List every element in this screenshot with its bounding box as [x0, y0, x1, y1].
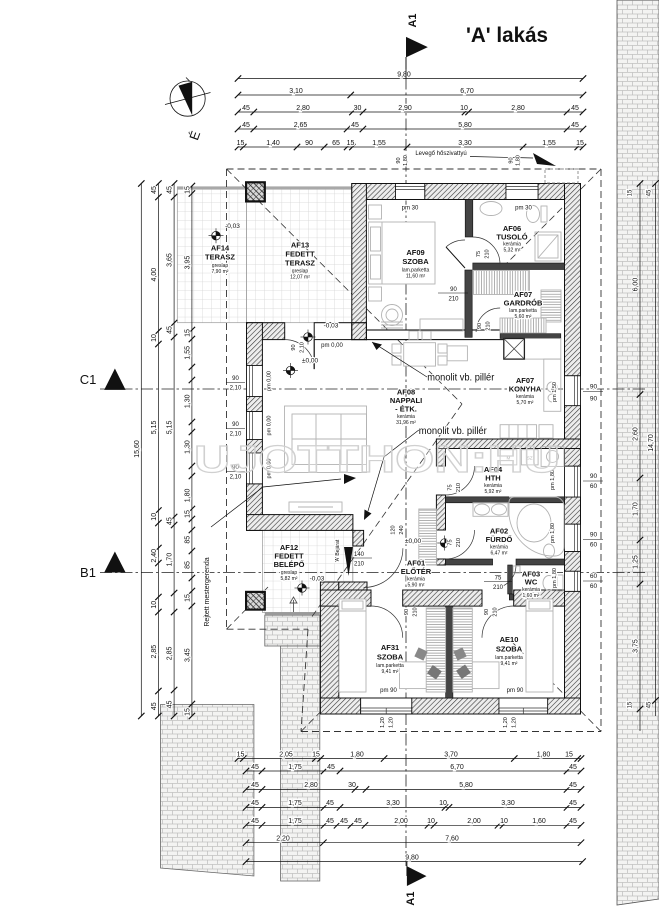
entry door arc [364, 548, 403, 587]
entrance steps paving [265, 615, 320, 646]
svg-text:45: 45 [242, 122, 250, 129]
svg-text:2,80: 2,80 [304, 782, 318, 789]
svg-text:45: 45 [351, 122, 359, 129]
svg-text:A1: A1 [407, 13, 419, 27]
sofa [285, 406, 367, 473]
svg-text:45: 45 [167, 517, 174, 525]
bath sinks [473, 503, 508, 517]
svg-text:45: 45 [340, 818, 348, 825]
island [447, 346, 467, 361]
svg-text:60: 60 [590, 483, 598, 490]
svg-text:UJOTTHON:HU: UJOTTHON:HU [194, 439, 560, 481]
svg-text:210: 210 [413, 607, 419, 616]
svg-text:Rejtett mestergerenda: Rejtett mestergerenda [204, 557, 211, 626]
svg-text:210: 210 [448, 297, 459, 303]
crib [382, 305, 403, 326]
svg-text:lam.parketta: lam.parketta [376, 663, 404, 669]
chimney shaft [504, 339, 525, 360]
entry east wall [353, 530, 364, 546]
svg-text:5,80: 5,80 [458, 122, 472, 129]
bench [420, 319, 463, 331]
svg-text:6,70: 6,70 [460, 88, 474, 95]
bath wc [544, 544, 555, 558]
window west 2 [247, 412, 263, 440]
svg-text:-0,03: -0,03 [310, 576, 325, 583]
svg-text:140: 140 [354, 552, 365, 558]
svg-text:90: 90 [404, 609, 410, 615]
svg-text:15: 15 [312, 751, 320, 758]
svg-text:2,10: 2,10 [230, 432, 242, 438]
svg-text:45: 45 [569, 764, 577, 771]
svg-text:45: 45 [571, 105, 579, 112]
bedroom west wall [320, 582, 338, 714]
wardrobes bedrooms [426, 608, 445, 692]
living south wall [247, 515, 353, 531]
svg-text:45: 45 [151, 702, 158, 710]
section line B1 [100, 572, 648, 574]
svg-text:60: 60 [590, 583, 598, 590]
svg-text:75: 75 [448, 539, 454, 545]
bed AE10 [526, 599, 553, 692]
svg-text:±0,00: ±0,00 [405, 538, 422, 545]
svg-text:1,60: 1,60 [532, 818, 546, 825]
terrace top slab edge [177, 187, 351, 190]
svg-text:90: 90 [232, 422, 239, 428]
svg-text:'A' Bejárat: 'A' Bejárat [335, 539, 341, 562]
svg-text:45: 45 [327, 764, 335, 771]
hall cabinet [419, 509, 437, 565]
svg-text:1,80: 1,80 [185, 488, 192, 502]
svg-text:2,00: 2,00 [394, 818, 408, 825]
svg-text:10: 10 [151, 601, 158, 609]
svg-text:90: 90 [450, 287, 457, 293]
svg-text:90: 90 [590, 473, 598, 480]
svg-text:75: 75 [448, 484, 454, 490]
svg-text:1,80: 1,80 [516, 155, 522, 166]
section line A1 vertical [405, 57, 407, 866]
svg-text:90: 90 [590, 532, 598, 539]
svg-text:-0,03: -0,03 [324, 323, 339, 330]
beam over kitchen/dining opening [366, 330, 503, 340]
svg-text:75: 75 [495, 576, 502, 582]
terrace AF14 grid [177, 187, 246, 323]
svg-text:1,20: 1,20 [512, 717, 518, 728]
svg-text:AF14: AF14 [211, 244, 230, 253]
svg-text:9,41 m²: 9,41 m² [382, 669, 399, 675]
svg-text:9,80: 9,80 [405, 854, 419, 861]
svg-text:1,20: 1,20 [389, 717, 395, 728]
svg-text:45: 45 [326, 818, 334, 825]
entry door leaf [344, 547, 353, 576]
svg-text:210: 210 [493, 607, 499, 616]
tusolo wc [527, 206, 540, 223]
svg-text:15: 15 [185, 186, 192, 194]
svg-text:45: 45 [242, 105, 250, 112]
svg-text:15: 15 [628, 189, 634, 196]
tusolo sink [480, 202, 502, 216]
svg-text:1,60 m²: 1,60 m² [523, 593, 540, 599]
svg-text:45: 45 [569, 800, 577, 807]
bath / wc divider [446, 559, 493, 565]
terrace column NW [246, 182, 265, 201]
svg-text:90: 90 [590, 396, 598, 403]
paving column [281, 646, 320, 881]
svg-text:15: 15 [185, 594, 192, 602]
svg-text:75: 75 [476, 251, 482, 257]
svg-text:45: 45 [251, 764, 259, 771]
svg-text:210: 210 [485, 249, 491, 258]
desk AF31 [400, 662, 446, 689]
section marker A1 bottom [406, 862, 408, 876]
svg-text:210: 210 [354, 562, 365, 568]
svg-text:monolit vb. pillér: monolit vb. pillér [427, 372, 494, 384]
svg-text:45: 45 [251, 818, 259, 825]
svg-text:SZOBA: SZOBA [496, 645, 523, 654]
svg-text:45: 45 [647, 701, 653, 708]
svg-text:90: 90 [291, 344, 297, 350]
svg-text:31,96 m²: 31,96 m² [396, 420, 416, 426]
svg-text:3,70: 3,70 [444, 751, 458, 758]
svg-text:85: 85 [185, 536, 192, 544]
svg-text:1,80: 1,80 [403, 155, 409, 166]
svg-text:45: 45 [326, 800, 334, 807]
svg-text:GARDRÓB: GARDRÓB [504, 299, 543, 308]
svg-text:FÜRDŐ: FÜRDŐ [486, 535, 513, 544]
window kitchen east [565, 376, 581, 406]
svg-text:7,90 m²: 7,90 m² [212, 269, 229, 275]
door to bedroom AE10 [482, 606, 514, 638]
svg-text:210: 210 [456, 483, 462, 492]
wc south wall [509, 594, 564, 600]
svg-text:pm 30: pm 30 [402, 206, 419, 212]
svg-text:monolit vb. pillér: monolit vb. pillér [419, 425, 487, 437]
bed szoba AF09 [369, 222, 436, 284]
tv bench [289, 502, 342, 512]
svg-text:210: 210 [486, 321, 492, 330]
porch column [246, 592, 265, 610]
svg-text:A1: A1 [405, 892, 417, 906]
svg-text:9,41 m²: 9,41 m² [501, 661, 518, 667]
terrace door to living [285, 340, 315, 370]
terrain block [161, 705, 254, 877]
svg-text:1,20: 1,20 [380, 717, 386, 728]
covered entry porch grid [262, 530, 353, 612]
svg-text:pm 90: pm 90 [507, 688, 524, 694]
svg-text:60: 60 [590, 573, 598, 580]
partition corridor/gardrob [465, 270, 472, 337]
svg-text:45: 45 [569, 782, 577, 789]
gardrob wardrobes [474, 271, 530, 295]
bedroom NW jog wall [339, 582, 367, 590]
svg-text:ELŐTÉR: ELŐTÉR [401, 567, 432, 576]
section line C1 [100, 388, 648, 390]
svg-text:SZOBA: SZOBA [377, 653, 404, 662]
svg-text:pm 1,50: pm 1,50 [552, 382, 558, 402]
svg-text:6,47 m²: 6,47 m² [491, 551, 508, 557]
svg-text:2,05: 2,05 [279, 751, 293, 758]
bathtub [509, 497, 564, 556]
svg-text:KONYHA: KONYHA [509, 385, 542, 394]
svg-text:45: 45 [167, 701, 174, 709]
svg-text:AE10: AE10 [500, 635, 519, 644]
svg-text:10: 10 [151, 513, 158, 521]
window west 3 [247, 453, 263, 484]
svg-text:5,92 m²: 5,92 m² [485, 489, 502, 495]
bed AF31 [339, 599, 366, 692]
door to szoba AF09 [446, 247, 465, 268]
svg-text:1,55: 1,55 [372, 140, 386, 147]
kitchen counters [524, 339, 560, 360]
porch entry arrow [293, 600, 295, 612]
svg-text:FEDETT: FEDETT [285, 250, 315, 259]
svg-text:1,75: 1,75 [288, 818, 302, 825]
svg-text:2,20: 2,20 [276, 836, 290, 843]
door to bedroom AF31 [371, 606, 403, 638]
svg-text:±0,00: ±0,00 [302, 358, 319, 365]
roof eaves outline [227, 168, 602, 170]
svg-text:120: 120 [391, 525, 397, 534]
svg-text:6,70: 6,70 [450, 764, 464, 771]
svg-text:TUSOLÓ: TUSOLÓ [496, 233, 527, 242]
svg-text:-0,03: -0,03 [225, 223, 240, 230]
window top 2 [506, 184, 538, 200]
svg-text:10: 10 [427, 818, 435, 825]
svg-text:Levegő hőszivattyú: Levegő hőszivattyú [415, 151, 466, 157]
svg-text:6,00: 6,00 [633, 278, 640, 292]
bedroom middle wall [446, 606, 453, 698]
dining table [404, 343, 436, 366]
covered terrace AF13 grid [247, 187, 352, 323]
terrace / bedroom divider wall [352, 184, 367, 340]
bedroom north wall [320, 590, 371, 606]
svg-text:15: 15 [628, 701, 634, 708]
svg-text:45: 45 [151, 186, 158, 194]
svg-text:1,30: 1,30 [185, 440, 192, 454]
svg-text:45: 45 [167, 326, 174, 334]
svg-text:30: 30 [348, 782, 356, 789]
svg-text:5,82 m²: 5,82 m² [281, 576, 298, 582]
svg-text:1,30: 1,30 [185, 394, 192, 408]
svg-text:AF09: AF09 [406, 248, 424, 257]
tusolo/gardrob divider [473, 263, 565, 270]
partition szoba/tusolo [465, 200, 473, 238]
svg-text:lam.parketta: lam.parketta [495, 655, 523, 661]
shower [535, 232, 561, 261]
svg-text:65: 65 [332, 140, 340, 147]
svg-text:45: 45 [569, 818, 577, 825]
svg-text:2,10: 2,10 [230, 386, 242, 392]
svg-text:12,07 m²: 12,07 m² [290, 274, 310, 280]
svg-text:5,80: 5,80 [459, 782, 473, 789]
svg-text:45: 45 [167, 186, 174, 194]
door to hth [446, 466, 475, 495]
svg-text:45: 45 [571, 122, 579, 129]
svg-text:15: 15 [565, 751, 573, 758]
svg-text:15: 15 [576, 140, 584, 147]
svg-text:15: 15 [185, 329, 192, 337]
svg-text:3,30: 3,30 [386, 800, 400, 807]
svg-text:TERASZ: TERASZ [285, 259, 315, 268]
svg-text:90: 90 [396, 157, 402, 163]
svg-text:15: 15 [347, 140, 355, 147]
svg-text:7,60: 7,60 [445, 836, 459, 843]
svg-text:2,80: 2,80 [296, 105, 310, 112]
svg-text:1,40: 1,40 [266, 140, 280, 147]
svg-text:90: 90 [305, 140, 313, 147]
svg-text:5,32 m²: 5,32 m² [504, 248, 521, 254]
gardrob south wall [500, 334, 561, 339]
svg-text:- ÉTK.: - ÉTK. [395, 405, 417, 414]
svg-text:3,65: 3,65 [167, 253, 174, 267]
svg-text:3,75: 3,75 [633, 639, 640, 653]
svg-text:30: 30 [354, 105, 362, 112]
svg-text:10: 10 [460, 105, 468, 112]
neighbouring wall strip [617, 0, 659, 905]
roof hip lines [227, 169, 463, 404]
heat pump dashed box [545, 169, 578, 183]
HTH / bath divider [446, 497, 565, 503]
svg-text:kerámia: kerámia [397, 414, 415, 420]
svg-text:1,55: 1,55 [185, 346, 192, 360]
living north wall [247, 323, 285, 340]
window bath east [565, 524, 581, 551]
monolithic pillar at living corner [352, 323, 367, 340]
wc west wall [508, 565, 513, 594]
svg-text:15: 15 [185, 708, 192, 716]
rug [381, 322, 403, 328]
compass [165, 78, 211, 117]
svg-text:90: 90 [484, 609, 490, 615]
svg-text:85: 85 [185, 561, 192, 569]
top dimension rows [238, 78, 583, 80]
bedroom south wall [320, 698, 360, 714]
svg-text:pm 0,00: pm 0,00 [321, 343, 343, 349]
svg-text:C1: C1 [80, 372, 97, 387]
svg-text:pm 1,80: pm 1,80 [552, 568, 558, 588]
window wc east [565, 571, 581, 591]
svg-text:45: 45 [647, 189, 653, 196]
svg-text:5,70 m²: 5,70 m² [517, 400, 534, 406]
svg-text:'A' lakás: 'A' lakás [466, 24, 548, 47]
svg-text:SZOBA: SZOBA [402, 257, 429, 266]
wc toilet [543, 576, 555, 591]
svg-text:11,60 m²: 11,60 m² [406, 274, 426, 280]
kitchen-HTH wall [436, 439, 580, 449]
svg-text:2,80: 2,80 [511, 105, 525, 112]
svg-text:10: 10 [439, 800, 447, 807]
left dimension columns [140, 184, 142, 717]
svg-text:90: 90 [232, 376, 239, 382]
hth washer dryer [500, 450, 517, 465]
door to wc [493, 565, 516, 588]
svg-text:1,75: 1,75 [288, 764, 302, 771]
svg-text:TERASZ: TERASZ [205, 253, 235, 262]
door to tusolo [473, 237, 500, 264]
svg-text:15: 15 [185, 510, 192, 518]
svg-text:5,15: 5,15 [167, 420, 174, 434]
svg-text:pm 0,00: pm 0,00 [267, 371, 273, 391]
svg-text:60: 60 [590, 542, 598, 549]
svg-text:BELÉPŐ: BELÉPŐ [274, 560, 305, 569]
right dimension columns [639, 184, 641, 732]
svg-text:14,70: 14,70 [648, 434, 655, 452]
svg-text:9,80: 9,80 [397, 71, 411, 78]
top exterior wall [352, 184, 396, 200]
svg-text:2,85: 2,85 [167, 646, 174, 660]
svg-text:3,10: 3,10 [289, 88, 303, 95]
svg-text:1,70: 1,70 [167, 553, 174, 567]
window top 1 [396, 184, 425, 200]
svg-text:1,80: 1,80 [537, 751, 551, 758]
bottom dimension rows [238, 758, 581, 760]
svg-text:AF31: AF31 [381, 643, 399, 652]
svg-text:pm 1,80: pm 1,80 [550, 523, 556, 543]
svg-text:WC: WC [525, 578, 538, 587]
svg-text:AF13: AF13 [291, 241, 309, 250]
svg-text:5,90 m²: 5,90 m² [408, 582, 425, 588]
svg-text:210: 210 [456, 538, 462, 547]
section marker A1 top [405, 57, 407, 79]
svg-text:10: 10 [500, 818, 508, 825]
svg-text:2,65: 2,65 [294, 122, 308, 129]
svg-text:15: 15 [237, 140, 245, 147]
svg-text:2,90: 2,90 [398, 105, 412, 112]
door to bath [446, 530, 475, 559]
svg-text:210: 210 [493, 585, 504, 591]
window west 1 [247, 366, 263, 397]
svg-text:3,30: 3,30 [501, 800, 515, 807]
porch slab edge [265, 612, 320, 615]
svg-text:90: 90 [509, 157, 515, 163]
svg-text:90: 90 [477, 323, 483, 329]
svg-text:2,85: 2,85 [151, 645, 158, 659]
svg-text:1,55: 1,55 [542, 140, 556, 147]
svg-text:2,60: 2,60 [633, 427, 640, 441]
svg-text:45: 45 [251, 800, 259, 807]
svg-text:45: 45 [251, 782, 259, 789]
svg-text:3,95: 3,95 [185, 256, 192, 270]
svg-text:5,15: 5,15 [151, 420, 158, 434]
window bedroom1 [361, 698, 412, 714]
svg-text:45: 45 [354, 818, 362, 825]
living west wall piers [247, 323, 263, 366]
svg-text:1,80: 1,80 [350, 751, 364, 758]
svg-text:pm 30: pm 30 [515, 206, 532, 212]
svg-text:240: 240 [399, 525, 405, 534]
svg-text:pm 90: pm 90 [380, 688, 397, 694]
desk chairs [414, 647, 427, 660]
desk AE10 [453, 662, 499, 689]
window hth east [565, 466, 581, 497]
svg-text:4,00: 4,00 [151, 268, 158, 282]
svg-text:2,10: 2,10 [300, 342, 306, 353]
svg-text:90: 90 [590, 384, 598, 391]
svg-text:2,00: 2,00 [467, 818, 481, 825]
svg-text:pm 0,00: pm 0,00 [267, 416, 273, 436]
svg-text:1,20: 1,20 [503, 717, 509, 728]
svg-text:3,30: 3,30 [458, 140, 472, 147]
svg-text:5,60 m²: 5,60 m² [515, 314, 532, 320]
door to gardrob [476, 308, 500, 332]
svg-text:1,25: 1,25 [633, 555, 640, 569]
right exterior wall [565, 184, 581, 376]
bath west wall segments [436, 449, 445, 467]
svg-text:3,45: 3,45 [185, 648, 192, 662]
svg-text:15: 15 [237, 751, 245, 758]
svg-text:1,75: 1,75 [288, 800, 302, 807]
svg-text:10: 10 [151, 334, 158, 342]
svg-text:2,40: 2,40 [151, 549, 158, 563]
